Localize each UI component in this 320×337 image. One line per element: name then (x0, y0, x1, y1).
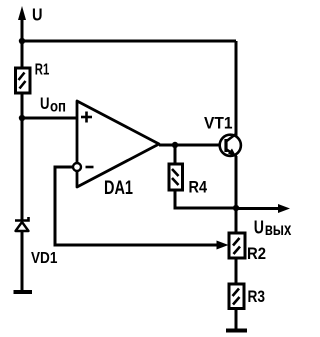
svg-text:U: U (40, 94, 50, 113)
wire R3 to ground (235, 308, 238, 330)
resistor R2 potentiometer (229, 233, 245, 258)
svg-text:VT1: VT1 (204, 113, 233, 132)
svg-text:R4: R4 (189, 178, 208, 197)
wire noninverting input (22, 117, 77, 120)
op-amp DA1 (73, 101, 159, 187)
wire R2 to R3 (235, 258, 238, 284)
zener diode VD1 (15, 217, 29, 231)
resistor R4 (169, 164, 183, 190)
svg-text:DA1: DA1 (104, 178, 133, 199)
ground right (226, 329, 247, 333)
svg-text:оп: оп (50, 98, 66, 115)
node Uop junction (19, 115, 25, 121)
resistor R3 (229, 284, 244, 309)
node output junction (172, 142, 178, 148)
wire R4 top lead (174, 145, 177, 164)
svg-text:U: U (32, 5, 43, 25)
wire R4 bottom lead (175, 190, 236, 208)
svg-text:U: U (254, 216, 264, 237)
transistor VT1 (220, 134, 241, 158)
node emitter junction (233, 205, 239, 211)
wire left rail upper (21, 12, 24, 220)
wiper arrow into R2 (217, 241, 229, 250)
svg-text:вых: вых (265, 219, 292, 239)
wire op-amp output to base (159, 144, 226, 147)
svg-text:VD1: VD1 (31, 250, 58, 267)
svg-text:R3: R3 (248, 287, 266, 306)
wire feedback from inverting input (55, 167, 218, 245)
wire collector rail (235, 41, 238, 136)
wire left rail lower (21, 230, 24, 292)
svg-text:R2: R2 (247, 245, 266, 263)
power arrow U (18, 6, 26, 20)
resistor R1 (16, 68, 31, 93)
node top-left junction (19, 38, 25, 44)
svg-text:R1: R1 (35, 61, 50, 78)
wire emitter rail (235, 156, 238, 233)
wire top rail (22, 40, 236, 43)
wire output arrow (236, 207, 281, 210)
ground left (14, 290, 33, 294)
